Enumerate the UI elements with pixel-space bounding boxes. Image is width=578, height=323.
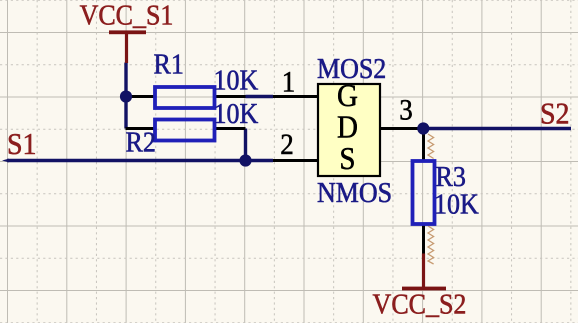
svg-text:10K: 10K [214, 65, 259, 96]
svg-text:3: 3 [399, 95, 412, 127]
svg-text:10K: 10K [434, 189, 479, 220]
svg-text:S1: S1 [7, 128, 37, 161]
svg-text:VCC_S2: VCC_S2 [373, 288, 467, 319]
svg-text:1: 1 [282, 67, 295, 99]
svg-text:10K: 10K [214, 98, 259, 129]
svg-text:G: G [337, 78, 358, 113]
svg-text:VCC_S1: VCC_S1 [80, 0, 174, 31]
svg-text:R1: R1 [154, 49, 184, 80]
svg-text:S2: S2 [540, 97, 570, 130]
svg-text:2: 2 [280, 129, 293, 161]
svg-text:D: D [337, 109, 358, 144]
svg-text:R2: R2 [126, 127, 156, 158]
svg-text:NMOS: NMOS [317, 177, 392, 208]
svg-text:S: S [339, 141, 355, 176]
